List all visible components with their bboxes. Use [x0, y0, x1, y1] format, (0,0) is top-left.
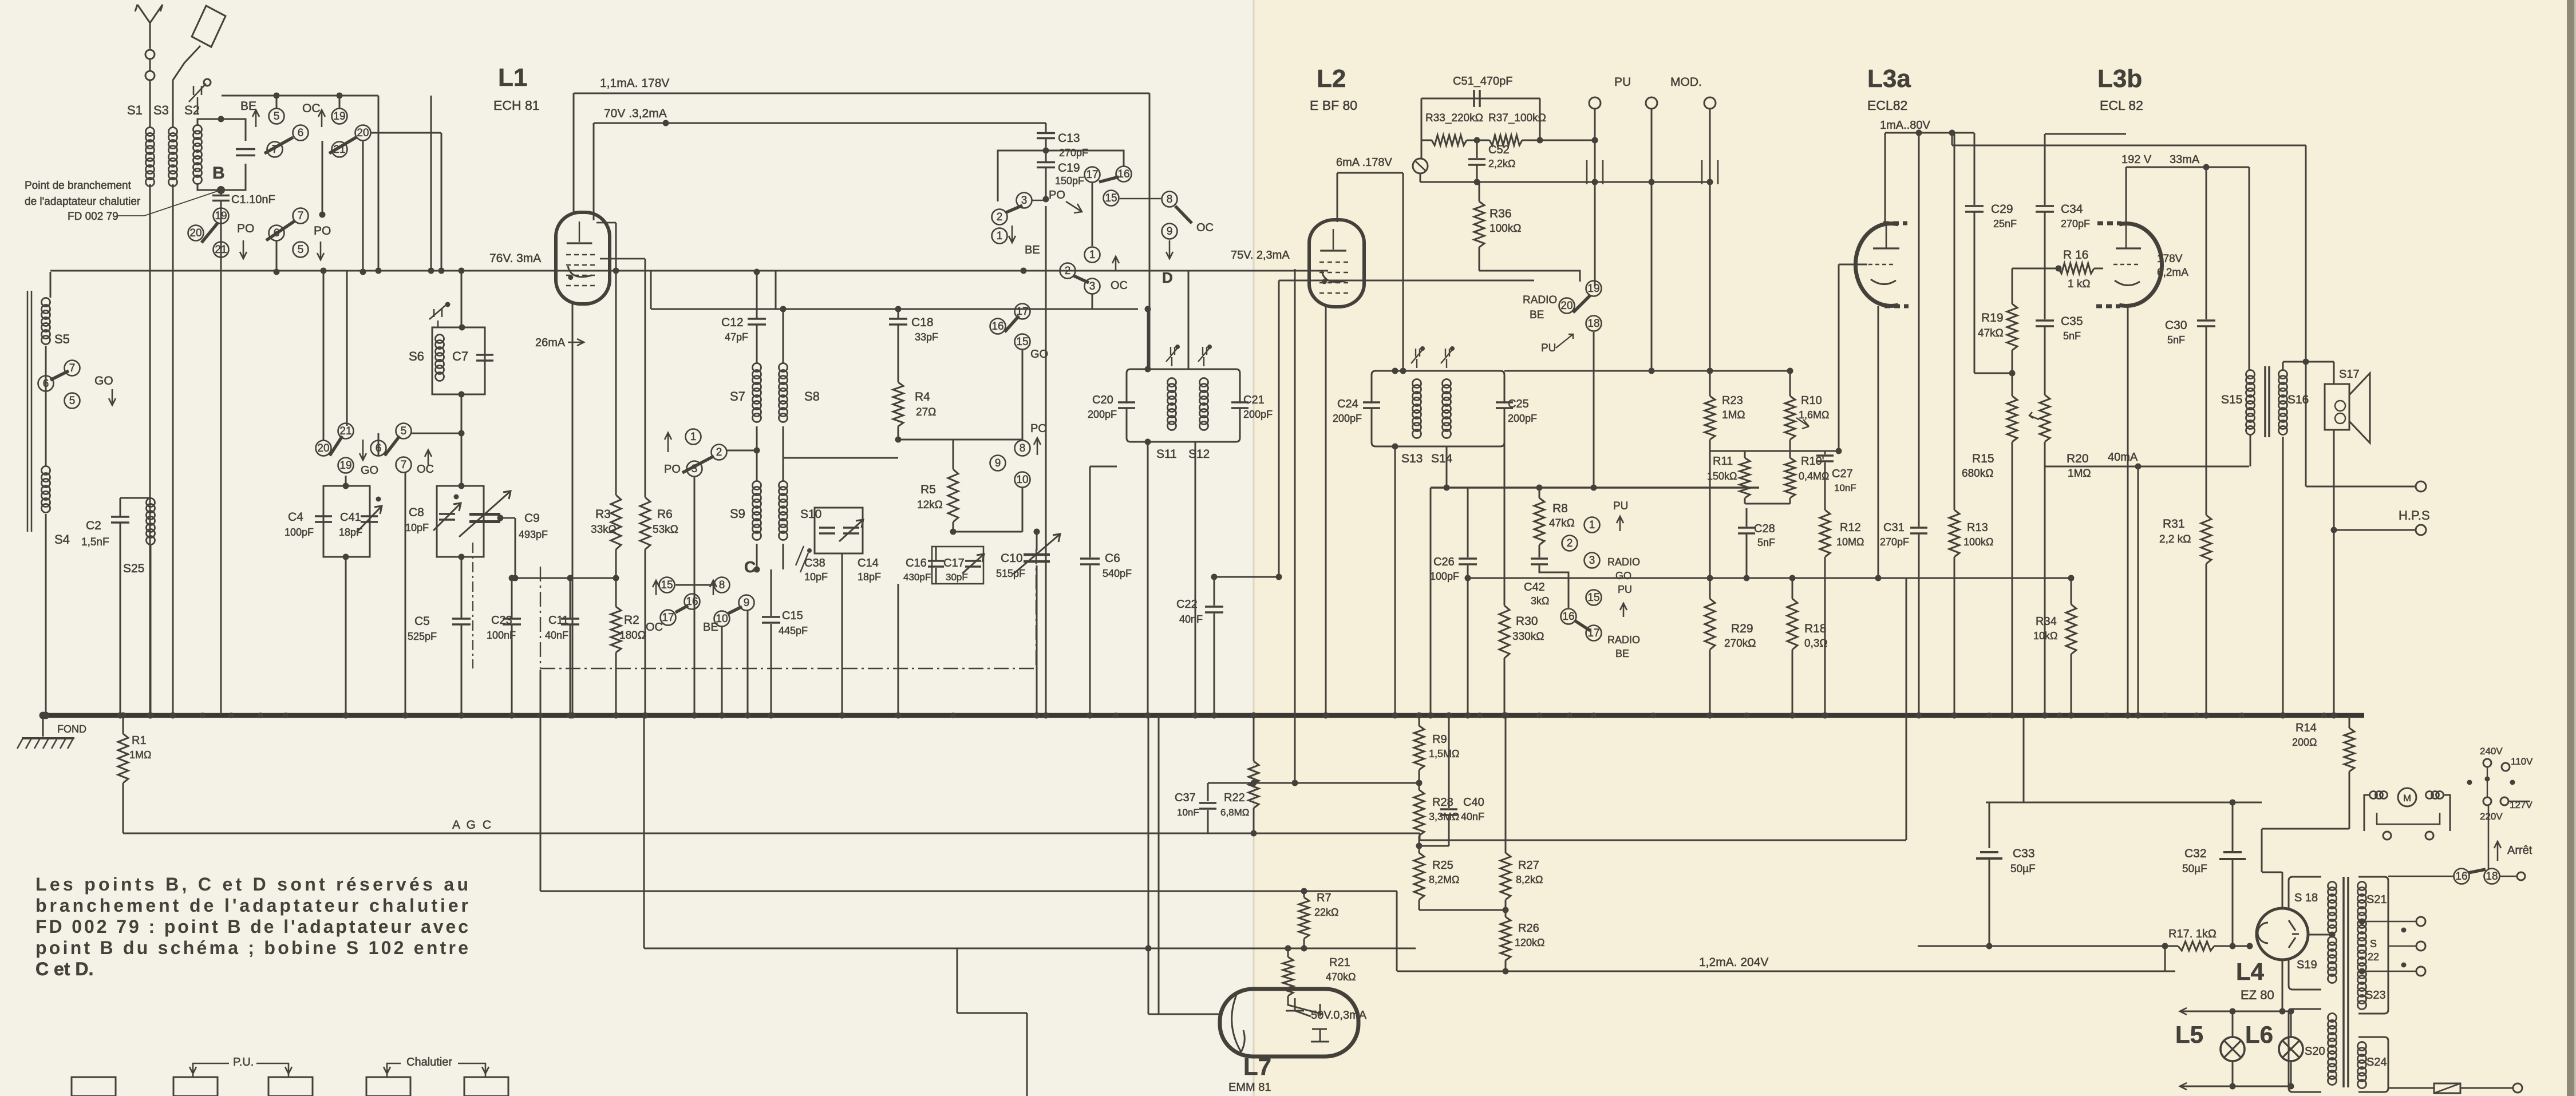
- wire 17 down to 1: [1092, 183, 1093, 246]
- coil S13: [1413, 379, 1421, 388]
- wire S7 S8 bottoms: [756, 426, 758, 450]
- transformer primary box S21 S22 S23: [2358, 877, 2388, 1014]
- svg-text:C24: C24: [1337, 398, 1358, 410]
- svg-text:S23: S23: [2365, 989, 2386, 1002]
- svg-text:P.U.: P.U.: [233, 1056, 254, 1069]
- svg-text:C17: C17: [943, 557, 965, 569]
- switch lever 20-21 b: [188, 225, 204, 241]
- svg-text:3: 3: [1589, 555, 1595, 567]
- svg-text:21: 21: [215, 244, 227, 256]
- wire line 1657: [644, 948, 1416, 949]
- svg-text:C15: C15: [782, 610, 803, 622]
- svg-text:S6: S6: [409, 349, 424, 363]
- callout line to B: [117, 191, 218, 216]
- svg-text:OC: OC: [302, 102, 321, 115]
- coil S20: [2328, 1014, 2337, 1022]
- wire R16 left down R19: [2012, 268, 2013, 304]
- svg-text:FD 002 79: FD 002 79: [68, 211, 118, 223]
- svg-text:FOND: FOND: [57, 723, 86, 735]
- svg-text:BE: BE: [1025, 244, 1040, 256]
- wire R28 C40 bottom: [1419, 845, 1449, 847]
- svg-text:L1: L1: [498, 64, 527, 92]
- switch contact 5 ant: [65, 393, 80, 409]
- wire R36 to radio switch: [1479, 271, 1580, 282]
- svg-text:5nF: 5nF: [1757, 537, 1775, 548]
- svg-text:R9: R9: [1432, 733, 1447, 746]
- svg-text:8,2kΩ: 8,2kΩ: [1516, 874, 1543, 885]
- svg-text:15: 15: [1587, 592, 1599, 604]
- svg-text:525pF: 525pF: [408, 631, 437, 642]
- antenna: [135, 5, 163, 49]
- svg-text:5nF: 5nF: [2063, 330, 2081, 342]
- svg-text:R14: R14: [2296, 722, 2317, 734]
- svg-text:L2: L2: [1317, 65, 1346, 93]
- svg-text:200Ω: 200Ω: [2292, 737, 2317, 748]
- svg-text:1mA..80V: 1mA..80V: [1880, 119, 1930, 132]
- svg-text:2,2kΩ: 2,2kΩ: [1488, 158, 1515, 169]
- switch lever 6-7 ant: [38, 376, 54, 391]
- svg-text:C38: C38: [804, 557, 825, 569]
- svg-text:1,5nF: 1,5nF: [81, 536, 109, 548]
- svg-text:PU: PU: [1614, 76, 1631, 89]
- svg-text:R11: R11: [1713, 455, 1733, 468]
- trim arrow under S9: [796, 546, 808, 572]
- svg-text:C12: C12: [721, 316, 744, 329]
- wire low switch links: [675, 584, 713, 586]
- svg-text:20: 20: [357, 127, 369, 139]
- svg-text:C27: C27: [1832, 468, 1853, 480]
- svg-text:R18: R18: [1804, 622, 1827, 635]
- svg-text:R26: R26: [1518, 922, 1539, 935]
- svg-text:9: 9: [1167, 225, 1173, 238]
- wire R3 node left: [515, 577, 616, 579]
- svg-text:12kΩ: 12kΩ: [917, 499, 943, 511]
- coil S11: [1168, 378, 1176, 387]
- svg-text:C20: C20: [1092, 394, 1113, 406]
- svg-text:R36: R36: [1490, 207, 1512, 220]
- svg-text:R23: R23: [1722, 394, 1743, 407]
- svg-text:R19: R19: [1981, 311, 2004, 325]
- svg-text:C26: C26: [1433, 556, 1455, 568]
- lamp rail bottom: [2180, 1083, 2210, 1090]
- svg-text:C34: C34: [2061, 203, 2083, 216]
- wire switch columns: [322, 141, 323, 215]
- svg-text:180Ω: 180Ω: [619, 630, 646, 642]
- wire C19 bypass right: [1046, 151, 1124, 166]
- svg-text:R33_220kΩ: R33_220kΩ: [1425, 112, 1483, 124]
- page fold line: [1253, 0, 1255, 1096]
- switch cluster OC mid: [396, 424, 412, 439]
- svg-text:RADIO: RADIO: [1523, 294, 1557, 306]
- svg-text:S10: S10: [800, 508, 821, 521]
- wire S1 down: [149, 184, 151, 715]
- svg-text:100kΩ: 100kΩ: [1490, 223, 1521, 235]
- svg-text:B: B: [212, 164, 225, 183]
- switch lever 1-2-3 osc: [686, 429, 701, 445]
- wire R25 bottom: [1419, 909, 1506, 911]
- svg-text:R 16: R 16: [2063, 248, 2088, 262]
- wire BE line: [776, 270, 1188, 272]
- svg-text:16: 16: [1117, 168, 1129, 180]
- svg-text:S14: S14: [1431, 452, 1453, 465]
- svg-text:C2: C2: [86, 519, 101, 532]
- wire vertical 1827: [1045, 206, 1047, 715]
- wire 1010 row: [1468, 577, 2071, 579]
- wire R9 node to AGC: [1254, 782, 1419, 784]
- terminal third: [1704, 97, 1716, 109]
- svg-text:C42: C42: [1524, 581, 1545, 593]
- wire 1,2mA corner: [2164, 946, 2166, 971]
- svg-text:8: 8: [1020, 442, 1026, 454]
- svg-text:30pF: 30pF: [946, 572, 968, 583]
- svg-text:S9: S9: [730, 507, 745, 521]
- svg-text:S15: S15: [2221, 393, 2242, 406]
- svg-text:5nF: 5nF: [2167, 334, 2185, 346]
- svg-text:200pF: 200pF: [1088, 409, 1117, 420]
- svg-text:L4: L4: [2236, 958, 2265, 985]
- svg-text:R15: R15: [1972, 452, 1994, 465]
- wire S5-S4: [45, 346, 47, 466]
- svg-text:R4: R4: [915, 390, 930, 403]
- wire mixer mid: [898, 439, 1022, 441]
- switch 2-3 OC row: [1060, 263, 1076, 279]
- wire levers mid: [323, 271, 325, 441]
- svg-text:C31: C31: [1883, 521, 1905, 534]
- svg-text:C6: C6: [1105, 552, 1120, 565]
- wire 18 down: [1593, 332, 1595, 488]
- svg-text:75V. 2,3mA: 75V. 2,3mA: [1231, 249, 1290, 262]
- coil S12: [1200, 378, 1208, 387]
- svg-text:C32: C32: [2184, 847, 2207, 860]
- svg-text:S7: S7: [730, 389, 745, 403]
- wire main ground bus: [43, 713, 2364, 718]
- svg-text:C10: C10: [1001, 552, 1023, 565]
- svg-text:R7: R7: [1317, 892, 1332, 904]
- svg-text:6: 6: [298, 127, 304, 139]
- svg-text:C: C: [744, 558, 756, 576]
- transformer S24 box: [2358, 1037, 2388, 1092]
- switch PU radio go: [1585, 517, 1600, 533]
- svg-text:6,2mA: 6,2mA: [2157, 267, 2188, 279]
- wire L3a grid: [1839, 264, 1867, 266]
- svg-text:47pF: 47pF: [725, 331, 748, 343]
- svg-text:PO: PO: [314, 224, 331, 238]
- wire osc top: [1090, 466, 1117, 468]
- ferrite core S5 S4: [27, 291, 29, 532]
- svg-text:S24: S24: [2366, 1056, 2387, 1069]
- tube L2: [1309, 220, 1364, 307]
- wire C19 bypass left: [998, 151, 1046, 201]
- svg-text:40nF: 40nF: [1179, 614, 1203, 625]
- svg-text:100pF: 100pF: [1430, 571, 1459, 582]
- dash-dot AM box: [540, 549, 1036, 668]
- svg-text:C22: C22: [1176, 598, 1198, 611]
- svg-text:R29: R29: [1731, 622, 1753, 635]
- plug symbol PU: [1587, 160, 1603, 184]
- svg-text:R37_100kΩ: R37_100kΩ: [1488, 112, 1546, 124]
- svg-text:120kΩ: 120kΩ: [1515, 937, 1545, 948]
- svg-text:40nF: 40nF: [545, 630, 568, 641]
- svg-text:2: 2: [716, 446, 722, 458]
- wire L1 down: [572, 303, 574, 715]
- switch lever 6-7: [293, 125, 309, 141]
- svg-text:OC: OC: [417, 463, 434, 476]
- wire L3a cathode: [1878, 306, 1879, 578]
- svg-text:445pF: 445pF: [779, 625, 808, 636]
- svg-text:R12: R12: [1840, 521, 1861, 534]
- capacitor in S2 box: [236, 148, 255, 151]
- wire top right feed: [1951, 133, 1953, 145]
- svg-text:S3: S3: [153, 103, 169, 117]
- svg-text:S20: S20: [2305, 1045, 2325, 1058]
- svg-text:15: 15: [661, 579, 673, 591]
- svg-text:R34: R34: [2036, 615, 2057, 628]
- wire heater line 1553: [540, 891, 1397, 892]
- svg-text:C4: C4: [288, 511, 303, 524]
- svg-text:PO: PO: [237, 222, 254, 235]
- wire L3b cathode: [2127, 306, 2129, 715]
- svg-text:470kΩ: 470kΩ: [1326, 971, 1356, 983]
- box C38 C14: [815, 508, 863, 553]
- wire box C8 down: [461, 557, 463, 618]
- svg-text:S 18: S 18: [2294, 892, 2318, 904]
- wire L7 connections: [1148, 715, 1149, 1014]
- svg-text:C30: C30: [2165, 319, 2187, 332]
- wire 76V line: [50, 270, 551, 272]
- wire S16 to speaker: [2283, 361, 2334, 363]
- svg-text:22: 22: [2368, 951, 2379, 963]
- wire L3a top row: [1885, 132, 1974, 134]
- svg-text:22kΩ: 22kΩ: [1314, 907, 1338, 918]
- switch radio be 15 16 17: [1586, 590, 1602, 606]
- svg-text:1MΩ: 1MΩ: [129, 749, 151, 761]
- svg-text:ECH 81: ECH 81: [493, 98, 540, 113]
- box S6 C7: [432, 327, 485, 394]
- terminal HPS 2: [2333, 430, 2335, 715]
- svg-text:17: 17: [662, 612, 674, 624]
- box C4 C41: [323, 486, 370, 557]
- svg-text:515pF: 515pF: [996, 568, 1025, 579]
- switch cluster 17-16-15 GO: [1015, 304, 1030, 319]
- svg-text:50µF: 50µF: [2010, 863, 2036, 875]
- svg-text:L3b: L3b: [2097, 65, 2142, 93]
- svg-text:R10: R10: [1801, 394, 1822, 407]
- tube L3b half envelope: [2119, 223, 2162, 306]
- svg-text:S2: S2: [184, 103, 200, 117]
- wire box C4 down: [345, 557, 347, 715]
- bus junction dots: [170, 713, 176, 718]
- page right edge: [2567, 0, 2574, 1096]
- primary taps: [2359, 919, 2365, 925]
- svg-text:OC: OC: [1196, 221, 1214, 234]
- svg-text:R1: R1: [132, 734, 147, 747]
- wire volume bottom row: [1420, 181, 1710, 183]
- svg-text:53kΩ: 53kΩ: [653, 524, 678, 536]
- svg-text:20: 20: [317, 442, 329, 454]
- wire L2 cathode down: [1325, 305, 1327, 715]
- gang link dash: [472, 543, 473, 668]
- svg-text:S17: S17: [2339, 368, 2360, 381]
- svg-text:9: 9: [744, 597, 750, 609]
- svg-text:L3a: L3a: [1867, 65, 1911, 93]
- fuse: [2434, 1083, 2460, 1093]
- svg-text:PU: PU: [1613, 500, 1628, 512]
- svg-text:6,8MΩ: 6,8MΩ: [1220, 807, 1250, 818]
- svg-text:21: 21: [339, 425, 351, 437]
- svg-text:27Ω: 27Ω: [916, 406, 936, 418]
- potentiometer volume: [1413, 159, 1428, 173]
- switch contact 5 c: [293, 242, 309, 258]
- svg-text:S25: S25: [123, 562, 144, 575]
- svg-text:R2: R2: [624, 614, 639, 627]
- wire top 1.1mA: [574, 93, 1149, 94]
- svg-text:BE: BE: [240, 100, 256, 113]
- lamp rail top: [2180, 1008, 2210, 1015]
- wire 2 to S7: [727, 450, 757, 452]
- svg-text:70V .3,2mA: 70V .3,2mA: [604, 107, 667, 120]
- svg-text:9: 9: [995, 457, 1001, 469]
- wire 475 junctions: [274, 269, 280, 275]
- svg-text:ECL 82: ECL 82: [2100, 98, 2143, 113]
- svg-text:C13: C13: [1058, 132, 1080, 145]
- svg-text:S12: S12: [1188, 448, 1210, 461]
- wire node 648 row: [1504, 370, 1790, 372]
- svg-text:10nF: 10nF: [1834, 482, 1856, 493]
- wire AGC line: [123, 833, 1420, 834]
- svg-text:Arrêt: Arrêt: [2507, 844, 2532, 857]
- svg-text:C41: C41: [340, 511, 361, 524]
- power transformer core: [2342, 877, 2345, 1087]
- wire cathode row 852: [1431, 486, 1759, 488]
- svg-text:26mA: 26mA: [535, 337, 566, 349]
- wire S4 down: [45, 514, 47, 715]
- svg-text:8,2MΩ: 8,2MΩ: [1429, 874, 1459, 885]
- switch cluster 8-9-10 PO: [1015, 441, 1030, 456]
- wire mod vert: [1651, 182, 1653, 371]
- svg-text:S1: S1: [127, 103, 143, 117]
- svg-text:1MΩ: 1MΩ: [2068, 468, 2091, 480]
- svg-text:330kΩ: 330kΩ: [1512, 631, 1544, 643]
- svg-text:C7: C7: [452, 349, 468, 363]
- svg-text:C51_470pF: C51_470pF: [1453, 75, 1513, 88]
- switch RADIO BE PU: [1586, 281, 1602, 296]
- keyboard buttons: [72, 1077, 116, 1096]
- wire L4 connections: [2282, 959, 2283, 1011]
- switch cluster GO mid: [338, 424, 354, 439]
- svg-text:OC: OC: [646, 621, 663, 634]
- tube L3a half envelope: [1855, 223, 1898, 306]
- trimmer above S6: [429, 304, 447, 327]
- svg-text:C8: C8: [409, 506, 424, 519]
- svg-text:RADIO: RADIO: [1607, 634, 1640, 646]
- svg-text:47kΩ: 47kΩ: [1978, 327, 2004, 339]
- svg-text:1: 1: [690, 431, 697, 443]
- wire top 167: [222, 95, 378, 97]
- svg-text:100pF: 100pF: [285, 527, 314, 538]
- svg-text:R5: R5: [920, 483, 936, 496]
- svg-text:de l'adaptateur chalutier: de l'adaptateur chalutier: [25, 196, 141, 208]
- svg-text:R8: R8: [1552, 502, 1568, 515]
- svg-text:40nF: 40nF: [1461, 811, 1484, 822]
- wire switch verticals IF: [1022, 350, 1024, 440]
- coil S21 S22 S23: [2358, 882, 2366, 891]
- wire R11 R10p frame: [1710, 450, 1839, 452]
- svg-text:R17. 1kΩ: R17. 1kΩ: [2168, 928, 2217, 940]
- svg-text:R6: R6: [657, 508, 673, 521]
- switch 3-2 PO: [1017, 193, 1032, 208]
- svg-text:18: 18: [2486, 871, 2498, 883]
- svg-text:1: 1: [997, 230, 1003, 242]
- svg-text:18pF: 18pF: [339, 527, 362, 538]
- wire L2 plate: [1337, 173, 1338, 222]
- plug symbol MOD: [1702, 160, 1718, 184]
- svg-text:200pF: 200pF: [1333, 413, 1362, 424]
- wire left vert: [50, 272, 52, 298]
- svg-text:17: 17: [1086, 169, 1098, 181]
- svg-text:10pF: 10pF: [405, 522, 429, 533]
- svg-text:GO: GO: [94, 374, 113, 387]
- wire L1 plate to IF: [1149, 93, 1151, 369]
- svg-text:S5: S5: [54, 332, 70, 346]
- svg-text:R31: R31: [2163, 517, 2185, 531]
- svg-text:1,5MΩ: 1,5MΩ: [1429, 748, 1459, 759]
- svg-text:GO: GO: [361, 464, 378, 477]
- tube L7 magic eye: [1220, 989, 1358, 1057]
- label OC arrow mid: [1112, 256, 1119, 271]
- svg-text:1,6MΩ: 1,6MΩ: [1799, 409, 1829, 421]
- svg-text:RADIO: RADIO: [1607, 556, 1640, 568]
- svg-text:220V: 220V: [2480, 811, 2503, 822]
- svg-text:7: 7: [298, 210, 304, 222]
- svg-text:2,2 kΩ: 2,2 kΩ: [2159, 533, 2191, 545]
- svg-text:240V: 240V: [2480, 746, 2503, 757]
- svg-text:BE: BE: [1530, 309, 1544, 321]
- svg-text:270pF: 270pF: [1059, 147, 1088, 159]
- svg-text:OC: OC: [1111, 279, 1128, 292]
- svg-text:10MΩ: 10MΩ: [1836, 536, 1864, 548]
- svg-text:8: 8: [1167, 193, 1173, 205]
- switch lever 17-16 C19: [1085, 167, 1100, 183]
- svg-text:R3: R3: [595, 508, 611, 521]
- svg-text:6mA .178V: 6mA .178V: [1336, 156, 1393, 169]
- wire L1 plate up: [573, 93, 575, 213]
- svg-text:270pF: 270pF: [2061, 218, 2090, 230]
- svg-text:Point de branchement: Point de branchement: [25, 180, 132, 192]
- wire S9 S10 bottom: [756, 544, 758, 569]
- svg-text:33mA: 33mA: [2170, 153, 2200, 166]
- wire L3b plate: [2125, 167, 2127, 223]
- IF can S11 S12 frame: [1127, 369, 1240, 442]
- svg-text:150pF: 150pF: [1055, 175, 1084, 187]
- wire verticals to bus from switches: [694, 477, 696, 715]
- wire 1653 rail: [1918, 945, 2178, 947]
- svg-text:2: 2: [997, 211, 1003, 223]
- wire L1 grid exits: [596, 222, 616, 224]
- svg-text:PU: PU: [1541, 342, 1556, 354]
- svg-text:20: 20: [1560, 300, 1573, 312]
- wire C22 top link: [1214, 576, 1279, 578]
- wire top 70V: [594, 122, 1046, 124]
- svg-text:270kΩ: 270kΩ: [1724, 638, 1756, 650]
- svg-text:R28: R28: [1432, 796, 1453, 809]
- svg-text:C33: C33: [2013, 847, 2035, 860]
- svg-text:L7: L7: [1243, 1053, 1271, 1080]
- svg-text:1,1mA. 178V: 1,1mA. 178V: [600, 77, 669, 90]
- svg-text:C52: C52: [1488, 144, 1510, 156]
- output transformer core: [2264, 366, 2266, 437]
- coil S14: [1443, 379, 1451, 388]
- svg-text:R13: R13: [1967, 521, 1988, 534]
